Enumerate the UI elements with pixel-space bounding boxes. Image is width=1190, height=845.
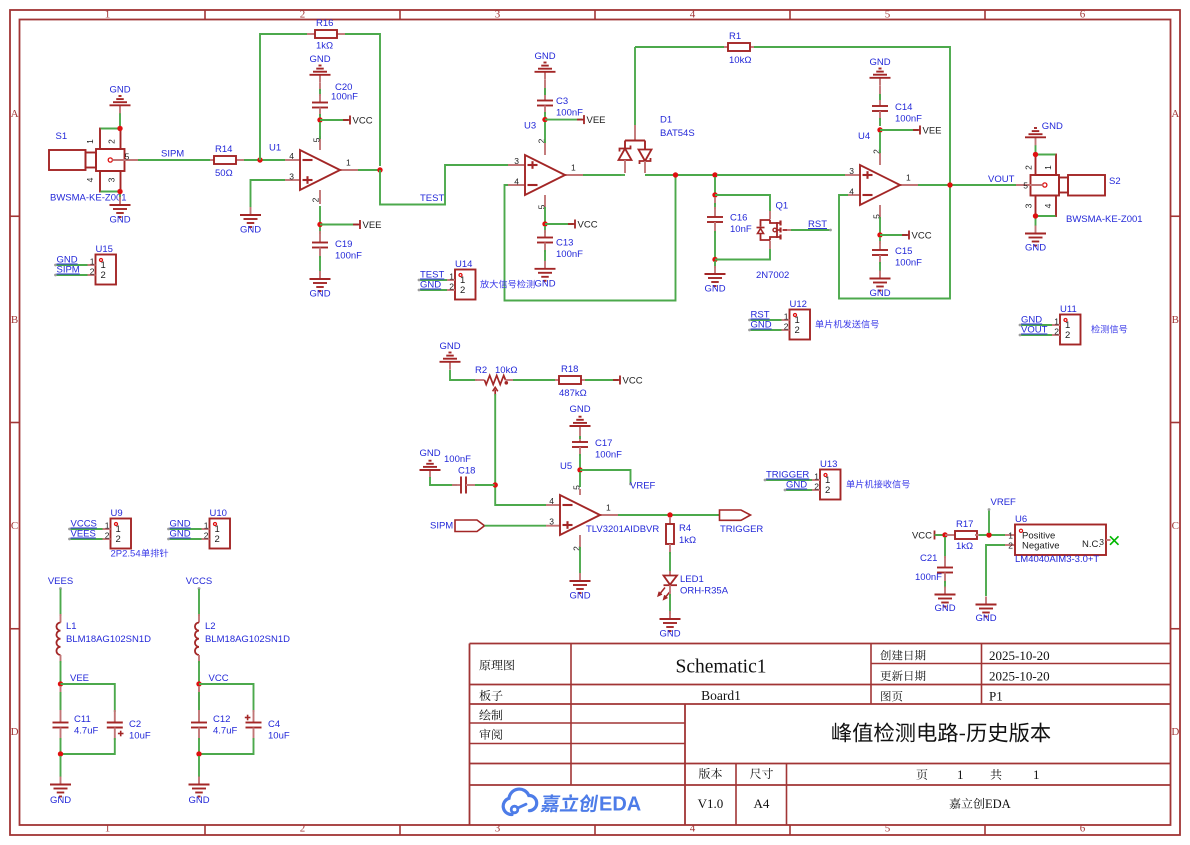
svg-text:RST: RST [808, 219, 827, 230]
svg-text:VOUT: VOUT [1021, 325, 1048, 336]
svg-text:VEE: VEE [923, 126, 942, 137]
svg-text:10kΩ: 10kΩ [495, 365, 517, 376]
wire GND to C18 [430, 477, 457, 485]
svg-text:100nF: 100nF [556, 249, 583, 260]
voltage reference U6 LM4040AIM3-3.0 [1005, 514, 1111, 565]
wire VEE node to C2 branch [61, 684, 115, 712]
svg-text:C: C [11, 520, 18, 532]
wire S2 pin2 to GND [1036, 145, 1056, 155]
svg-text:10nF: 10nF [730, 224, 752, 235]
svg-text:L2: L2 [205, 621, 216, 632]
wire C18 to wiper node [475, 484, 495, 486]
svg-text:1: 1 [1054, 317, 1059, 327]
svg-text:VCC: VCC [912, 231, 932, 242]
svg-text:1: 1 [784, 312, 789, 322]
svg-text:C14: C14 [895, 102, 912, 113]
svg-text:EDA: EDA [599, 794, 641, 816]
svg-text:2: 2 [204, 531, 209, 541]
net label VCCS [186, 576, 212, 590]
svg-text:3: 3 [495, 9, 501, 21]
connector U9 [68, 508, 131, 549]
svg-text:C18: C18 [458, 466, 475, 477]
svg-text:10uF: 10uF [129, 731, 151, 742]
svg-text:GND: GND [309, 54, 330, 65]
wire S2 pin3 to GND [1036, 216, 1056, 226]
svg-text:5: 5 [572, 485, 582, 490]
svg-text:2: 2 [105, 531, 110, 541]
svg-text:S1: S1 [56, 131, 68, 142]
feedback loop wire R16 right [345, 34, 380, 166]
svg-text:1: 1 [1043, 165, 1053, 170]
wire to GND below C12 [198, 756, 200, 777]
ground flag above C3 [534, 51, 555, 80]
svg-text:1: 1 [346, 158, 351, 168]
svg-text:C15: C15 [895, 246, 912, 257]
svg-text:R2: R2 [475, 365, 487, 376]
capacitor C11 4.7uF [53, 686, 99, 752]
net port TRIGGER output flag [720, 510, 764, 535]
junction at U1 V+ supply [317, 117, 322, 122]
capacitor C13 100nF [537, 226, 583, 261]
ground flag above C18 [419, 448, 440, 478]
svg-text:3: 3 [514, 156, 519, 166]
junction at VOUT node [947, 182, 952, 187]
svg-text:100nF: 100nF [595, 450, 622, 461]
svg-text:U6: U6 [1015, 514, 1027, 525]
svg-text:B: B [1172, 314, 1179, 326]
svg-text:C4: C4 [268, 719, 280, 730]
svg-text:R14: R14 [215, 144, 232, 155]
svg-text:U14: U14 [455, 259, 472, 270]
junction at C21 tap [942, 532, 947, 537]
svg-text:U11: U11 [1060, 304, 1077, 315]
svg-text:GND: GND [659, 629, 680, 640]
svg-text:487kΩ: 487kΩ [559, 388, 587, 399]
svg-text:A4: A4 [754, 796, 770, 811]
ground at U1 pin3 [240, 207, 261, 236]
ground below S2 [1025, 226, 1046, 254]
svg-text:S2: S2 [1109, 176, 1121, 187]
svg-text:C: C [1172, 520, 1179, 532]
wire R4 to LED1 [669, 552, 671, 573]
wire SIPM flag to U5 pin3 [485, 525, 547, 527]
net label VREF at U6 [988, 497, 1016, 533]
svg-text:VCC: VCC [209, 673, 229, 684]
svg-text:2: 2 [784, 322, 789, 332]
svg-text:BAT54S: BAT54S [660, 128, 695, 139]
wire U5 pin2 to GND [579, 547, 581, 573]
svg-text:GND: GND [419, 448, 440, 459]
svg-text:D1: D1 [660, 115, 672, 126]
svg-text:GND: GND [420, 280, 441, 291]
svg-text:GND: GND [109, 84, 130, 95]
svg-text:1: 1 [105, 823, 111, 835]
svg-text:U5: U5 [560, 461, 572, 472]
svg-text:B: B [11, 314, 18, 326]
connector U12 [748, 299, 879, 340]
svg-text:2: 2 [300, 823, 306, 835]
wire to GND below C11 [60, 756, 62, 777]
junction at U4 V+ supply [877, 232, 882, 237]
diode D1 BAT54S [619, 115, 695, 174]
svg-text:1: 1 [90, 257, 95, 267]
LED LED1 ORH-R35A [658, 571, 729, 599]
wire C16 bottom to Q1 source [715, 249, 770, 260]
capacitor C20 100nF [312, 82, 358, 118]
svg-text:GND: GND [1025, 242, 1046, 253]
svg-text:GND: GND [50, 795, 71, 806]
svg-text:GND: GND [240, 225, 261, 236]
resistor R4 1k vertical [666, 517, 696, 554]
svg-text:2025-10-20: 2025-10-20 [989, 669, 1050, 684]
svg-text:TEST: TEST [420, 193, 444, 204]
junction at VCC GND node [196, 751, 201, 756]
svg-text:GND: GND [786, 480, 807, 491]
op-amp U4 [845, 131, 920, 219]
wire SIPM from S1 to R14 [138, 159, 210, 161]
svg-text:4: 4 [289, 151, 294, 161]
svg-text:ORH-R35A: ORH-R35A [680, 586, 729, 597]
svg-text:100nF: 100nF [444, 454, 471, 465]
connector U14 [418, 259, 535, 300]
svg-text:L1: L1 [66, 621, 77, 632]
svg-text:U13: U13 [820, 459, 837, 470]
svg-text:50Ω: 50Ω [215, 168, 233, 179]
svg-text:5: 5 [885, 823, 891, 835]
svg-text:1: 1 [606, 503, 611, 513]
resistor R14 50ohm [210, 144, 244, 179]
svg-text:2: 2 [90, 267, 95, 277]
wire R2 wiper to U5 pin4 [495, 394, 546, 505]
ground below U5 [569, 573, 590, 602]
svg-text:VEE: VEE [587, 115, 606, 126]
svg-text:1: 1 [204, 521, 209, 531]
svg-text:2: 2 [1024, 165, 1034, 170]
wire C16 bottom to GND [714, 261, 716, 268]
svg-text:VOUT: VOUT [988, 174, 1015, 185]
capacitor C18 100nF horizontal [444, 454, 477, 494]
svg-text:GND: GND [934, 603, 955, 614]
wire R17 to U6 pin1 [979, 534, 1005, 536]
svg-text:1: 1 [105, 521, 110, 531]
op-amp U1 [269, 136, 360, 204]
svg-text:2: 2 [1054, 327, 1059, 337]
wire U6 pin2 to GND [986, 545, 1005, 596]
svg-text:C16: C16 [730, 213, 747, 224]
ground below S1 [109, 197, 130, 226]
resistor R18 487k [555, 364, 587, 399]
svg-text:1: 1 [957, 767, 964, 782]
wire VREF tap at U5 [580, 470, 656, 492]
svg-text:4: 4 [549, 496, 554, 506]
connector U13 [764, 459, 910, 500]
svg-text:4: 4 [514, 177, 519, 187]
junction at C16 top [712, 192, 717, 197]
svg-text:2: 2 [300, 9, 306, 21]
svg-text:GND: GND [569, 404, 590, 415]
svg-text:Schematic1: Schematic1 [676, 657, 767, 678]
ground below C19 [309, 271, 330, 300]
power flag VEE at U1 [320, 220, 382, 231]
svg-text:GND: GND [869, 57, 890, 68]
inductor L1 BLM18AG102SN1D [56, 614, 151, 663]
svg-text:A: A [11, 108, 19, 120]
svg-text:C17: C17 [595, 438, 612, 449]
svg-text:3: 3 [549, 517, 554, 527]
capacitor C21 100nF [915, 537, 953, 588]
connector S1 BWSMA-KE-Z001 [49, 129, 138, 204]
ground flag above C14 [869, 57, 890, 86]
svg-text:1: 1 [906, 173, 911, 183]
svg-text:BLM18AG102SN1D: BLM18AG102SN1D [205, 634, 290, 645]
ground flag above R2 [439, 341, 460, 370]
power flag VEE at U4 [880, 126, 942, 137]
resistor R16 1k feedback [307, 18, 345, 52]
svg-text:6: 6 [1080, 9, 1086, 21]
wire TEST from U1 output to U3 pin3 [380, 165, 508, 205]
ground below U6 pin2 [975, 597, 996, 625]
wire R14 to U1 pin4 [244, 159, 285, 161]
ground below C12 [188, 777, 209, 807]
svg-text:VEE: VEE [363, 220, 382, 231]
svg-text:GND: GND [170, 529, 191, 540]
junction at C16 top node [712, 172, 717, 177]
svg-text:SIPM: SIPM [57, 265, 80, 276]
capacitor C4 10uF polarized [245, 710, 290, 742]
junction at U1 output [377, 167, 382, 172]
wire C3 junction to U3 pin2 [544, 122, 546, 143]
svg-text:100nF: 100nF [331, 92, 358, 103]
svg-text:U3: U3 [524, 121, 536, 132]
op-amp U3 [508, 121, 585, 210]
svg-text:4: 4 [85, 177, 95, 182]
wire LED1 to GND [669, 594, 671, 614]
junction at U1 V- supply [317, 222, 322, 227]
power flag VCC at U3 [545, 220, 598, 231]
junction at U3 V- supply [542, 117, 547, 122]
junction at VEE GND node [58, 751, 63, 756]
svg-text:3: 3 [1024, 203, 1034, 208]
potentiometer R2 10k [475, 365, 517, 396]
wire U3 pin5 to VCC node [544, 207, 546, 222]
svg-text:4: 4 [690, 823, 696, 835]
svg-text:1: 1 [814, 472, 819, 482]
svg-text:R16: R16 [316, 18, 333, 29]
capacitor C16 10nF [707, 197, 752, 257]
wire main node to C16 and Q1 drain [714, 177, 716, 193]
power flag VEE at U3 [545, 115, 606, 126]
svg-text:1: 1 [571, 163, 576, 173]
svg-text:GND: GND [704, 284, 725, 295]
svg-text:2P2.54: 2P2.54 [111, 549, 141, 560]
inductor L2 BLM18AG102SN1D [195, 614, 290, 663]
wire to Q1 drain [715, 195, 770, 211]
svg-text:U12: U12 [790, 299, 807, 310]
svg-text:Board1: Board1 [701, 688, 741, 703]
svg-text:2: 2 [449, 282, 454, 292]
svg-text:3: 3 [289, 172, 294, 182]
wire U5 output to TRIGGER [618, 514, 720, 516]
wire U1 output node [358, 169, 380, 171]
capacitor C3 100nF [537, 80, 583, 119]
svg-text:R4: R4 [679, 523, 691, 534]
wire C4 bottom to GND node [201, 738, 254, 754]
svg-text:GND: GND [109, 215, 130, 226]
svg-text:3: 3 [849, 166, 854, 176]
svg-text:GND: GND [869, 288, 890, 299]
net label VEES [48, 576, 73, 590]
svg-text:10kΩ: 10kΩ [729, 55, 751, 66]
svg-text:3: 3 [495, 823, 501, 835]
wire U1 pin3 to GND [251, 180, 286, 207]
svg-text:Q1: Q1 [776, 201, 789, 212]
svg-text:1kΩ: 1kΩ [316, 41, 333, 52]
svg-text:2: 2 [795, 325, 800, 336]
svg-text:5: 5 [125, 152, 130, 162]
svg-text:1: 1 [1008, 531, 1013, 541]
svg-text:3: 3 [1099, 537, 1104, 547]
svg-text:R18: R18 [561, 364, 578, 375]
svg-text:2: 2 [101, 270, 106, 281]
feedback loop wire R16 left [260, 34, 307, 160]
wire C20 junction to U1 pin5 [319, 122, 321, 139]
wire S1 pin2 to GND [101, 113, 121, 129]
svg-text:VCCS: VCCS [186, 576, 212, 587]
power flag VCC at U1 [320, 116, 373, 127]
svg-text:100nF: 100nF [335, 251, 362, 262]
connector U10 [167, 508, 230, 549]
svg-text:2: 2 [311, 197, 321, 202]
junction at U3 feedback tap [673, 172, 678, 177]
resistor R17 1k [945, 519, 979, 552]
wire U4 feedback loop [839, 187, 950, 299]
svg-text:U10: U10 [210, 508, 227, 519]
JLCEDA logo [503, 789, 641, 815]
svg-text:GND: GND [534, 51, 555, 62]
wire R2 to R18 [513, 379, 555, 381]
svg-text:VEES: VEES [48, 576, 73, 587]
wire R1 to VOUT node riser [754, 47, 950, 183]
connector U11 [1019, 304, 1128, 345]
power flag VCC at R18 [585, 376, 643, 387]
wire L1 to VEE node [60, 661, 62, 682]
connector S2 BWSMA-KE-Z001 [1016, 155, 1143, 226]
ground flag above C20 [309, 54, 330, 83]
svg-text:D: D [1171, 726, 1179, 738]
svg-text:U9: U9 [111, 508, 123, 519]
svg-text:C19: C19 [335, 239, 352, 250]
svg-text:1: 1 [1033, 767, 1040, 782]
wire D1 anode segment [621, 174, 625, 176]
svg-text:2: 2 [1008, 541, 1013, 551]
svg-text:4.7uF: 4.7uF [74, 726, 98, 737]
svg-text:4: 4 [849, 187, 854, 197]
comparator U5 TLV3201 [546, 461, 659, 551]
svg-text:U4: U4 [858, 131, 870, 142]
svg-text:VCC: VCC [578, 220, 598, 231]
svg-text:Negative: Negative [1022, 541, 1060, 552]
wire C14 junction to U4 pin2 [879, 132, 881, 153]
transistor Q1 2N7002 [756, 201, 792, 282]
wire U4 output to S2 [918, 184, 1016, 186]
wire VEES to L1 [60, 589, 62, 616]
capacitor C12 4.7uF [191, 686, 237, 752]
svg-text:1kΩ: 1kΩ [956, 541, 973, 552]
svg-text:2025-10-20: 2025-10-20 [989, 648, 1050, 663]
resistor R1 10k [635, 31, 754, 66]
svg-text:2: 2 [825, 485, 830, 496]
svg-text:1: 1 [105, 9, 111, 21]
junction at U5 V+ supply [577, 467, 582, 472]
ground below C11 [50, 777, 71, 807]
svg-text:4.7uF: 4.7uF [213, 726, 237, 737]
wire VCC node to C4 branch [199, 684, 254, 712]
svg-text:N.C.: N.C. [1082, 539, 1101, 550]
svg-text:TRIGGER: TRIGGER [720, 524, 763, 535]
ground flag above C17 [569, 404, 590, 434]
svg-text:5: 5 [885, 9, 891, 21]
svg-text:GND: GND [1042, 121, 1063, 132]
svg-text:EDA: EDA [985, 797, 1011, 811]
svg-text:VCC: VCC [912, 531, 932, 542]
wire VCC flag to R17 [935, 534, 944, 536]
junction at U3 V+ supply [542, 221, 547, 226]
ground flag above S1 [109, 84, 130, 113]
capacitor C14 100nF [872, 86, 922, 126]
wire C17 junction to U5 pin5 [579, 472, 581, 487]
svg-text:4: 4 [1043, 203, 1053, 208]
remark 2P2.54 pin header [111, 549, 169, 560]
svg-text:R17: R17 [956, 519, 973, 530]
svg-text:GND: GND [751, 320, 772, 331]
junction at C18 tap [493, 482, 498, 487]
junction at S1 pin3 [117, 189, 122, 194]
junction at S2 pin3 [1033, 213, 1038, 218]
svg-text:SIPM: SIPM [430, 521, 453, 532]
ground flag above S2 [1025, 121, 1063, 145]
svg-text:U15: U15 [96, 244, 113, 255]
svg-text:VCC: VCC [353, 116, 373, 127]
junction at U5 output [667, 512, 672, 517]
svg-text:4: 4 [690, 9, 696, 21]
svg-text:A: A [1171, 108, 1179, 120]
ground below C15 [869, 271, 890, 300]
svg-text:GND: GND [534, 278, 555, 289]
svg-text:GND: GND [439, 341, 460, 352]
capacitor C19 100nF [312, 227, 362, 271]
connector U15 [54, 244, 116, 285]
junction at U4 V- supply [877, 127, 882, 132]
title block [470, 644, 1171, 825]
svg-text:VREF: VREF [630, 481, 656, 492]
svg-text:BWSMA-KE-Z001: BWSMA-KE-Z001 [1066, 214, 1143, 225]
wire C16 node to U4 pin3 [717, 174, 845, 176]
capacitor C17 100nF [572, 434, 622, 468]
svg-text:1: 1 [449, 272, 454, 282]
svg-text:LM4040AIM3-3.0+T: LM4040AIM3-3.0+T [1015, 554, 1099, 565]
svg-text:VCC: VCC [623, 376, 643, 387]
junction at S1 pin2 [117, 126, 122, 131]
svg-text:100nF: 100nF [895, 258, 922, 269]
svg-text:2: 2 [1065, 330, 1070, 341]
wire U3 output to D1 [583, 174, 621, 176]
no-connect marker at U6 pin3 [1110, 536, 1119, 545]
svg-text:VEES: VEES [71, 529, 96, 540]
svg-text:R1: R1 [729, 31, 741, 42]
ground below C21 [934, 587, 955, 615]
svg-text:BWSMA-KE-Z001: BWSMA-KE-Z001 [50, 193, 127, 204]
wire U1 pin2 to VEE node [319, 206, 321, 222]
